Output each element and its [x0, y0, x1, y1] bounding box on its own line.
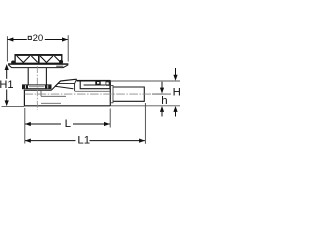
- svg-text:H1: H1: [0, 79, 14, 91]
- trap body left edge: [23, 90, 25, 106]
- grate outline: [15, 55, 62, 64]
- interior pocket wall: [40, 90, 42, 96]
- right clamp knob: [59, 60, 63, 64]
- dimension H bottom arrow: [175, 111, 177, 116]
- reference line top of body for H: [111, 80, 181, 82]
- trap body top left edge: [24, 89, 51, 91]
- wire: extension line left of dim 20: [6, 36, 8, 61]
- vertical centerline of drain axis: [36, 66, 38, 110]
- dimension h bottom arrow: [161, 111, 163, 116]
- socket tick: [106, 84, 110, 86]
- outlet ramp top edge: [60, 79, 76, 81]
- dimension line L1: [25, 140, 76, 142]
- left clamp knob: [11, 61, 15, 65]
- svg-text:h: h: [161, 95, 167, 107]
- arrow H1 up: [5, 64, 9, 70]
- interior weir line: [75, 90, 110, 92]
- outlet pipe bottom: [113, 100, 144, 102]
- flange body trapezoid: [8, 65, 68, 68]
- horizontal centerline of pipe: [25, 93, 167, 95]
- dimension line L: [25, 123, 61, 125]
- outlet ramp bottom edge: [55, 86, 73, 88]
- reference line at centerline level for h: [152, 93, 171, 95]
- wire: extension line left for L and L1: [24, 108, 26, 144]
- clip dark block: [95, 81, 100, 85]
- arrow H1 down: [5, 100, 9, 106]
- interior floor line: [41, 102, 61, 104]
- dimension H1 line lower segment: [6, 90, 8, 104]
- arrow L left: [25, 122, 31, 126]
- reference line bottom left for H1: [2, 105, 25, 107]
- flange inner step line right: [56, 65, 63, 67]
- outlet pipe top: [113, 86, 144, 88]
- arrow L right: [104, 122, 110, 126]
- grate V pattern right cell: [40, 56, 61, 63]
- outlet socket hub: [110, 85, 113, 102]
- svg-text:L1: L1: [77, 134, 90, 146]
- grate top thick edge: [15, 54, 63, 56]
- grate V pattern left cell: [17, 56, 38, 63]
- union nut mid line: [29, 86, 44, 88]
- union nut right knurl block: [45, 85, 51, 88]
- flange top bar: [8, 63, 68, 65]
- dimension h top arrow: [161, 82, 163, 89]
- outlet ramp left lower diagonal: [55, 81, 61, 86]
- trap body top right thick edge: [77, 80, 111, 82]
- funnel right wall: [45, 68, 47, 85]
- funnel left wall: [27, 68, 29, 85]
- recess channel in body top: [80, 82, 110, 89]
- trap body right edge: [109, 80, 111, 106]
- svg-text:H: H: [173, 87, 180, 99]
- wire: extension line right for L: [109, 109, 111, 128]
- recess inner line: [84, 84, 106, 86]
- union nut collar outline: [23, 85, 52, 89]
- union nut left knurl block: [23, 85, 28, 88]
- corner box detail: [106, 82, 109, 85]
- clip white slot: [97, 82, 99, 84]
- arrow left of dim 20: [8, 37, 14, 41]
- wire: extension line right of dim 20: [67, 35, 69, 61]
- outlet ramp inner line: [58, 83, 74, 85]
- square symbol of label 20: [28, 36, 31, 39]
- dimension H top arrow: [175, 68, 177, 76]
- dimension line 20: [8, 39, 27, 41]
- svg-text:L: L: [65, 118, 71, 130]
- arrow L1 right: [139, 139, 145, 143]
- outlet pipe end: [143, 87, 145, 102]
- wire: extension line right for L1: [144, 103, 146, 144]
- outlet ramp outer diagonal: [51, 81, 60, 91]
- outlet ramp right edge: [75, 79, 77, 91]
- grate middle divider: [38, 55, 40, 64]
- svg-text:20: 20: [33, 33, 44, 44]
- dimension H1 line upper segment: [6, 68, 8, 79]
- interior pocket bottom: [41, 95, 66, 97]
- reference line bottom right for H and h: [110, 105, 180, 107]
- arrow right of dim 20: [62, 37, 68, 41]
- trap body bottom edge: [24, 105, 110, 107]
- arrow L1 left: [25, 139, 31, 143]
